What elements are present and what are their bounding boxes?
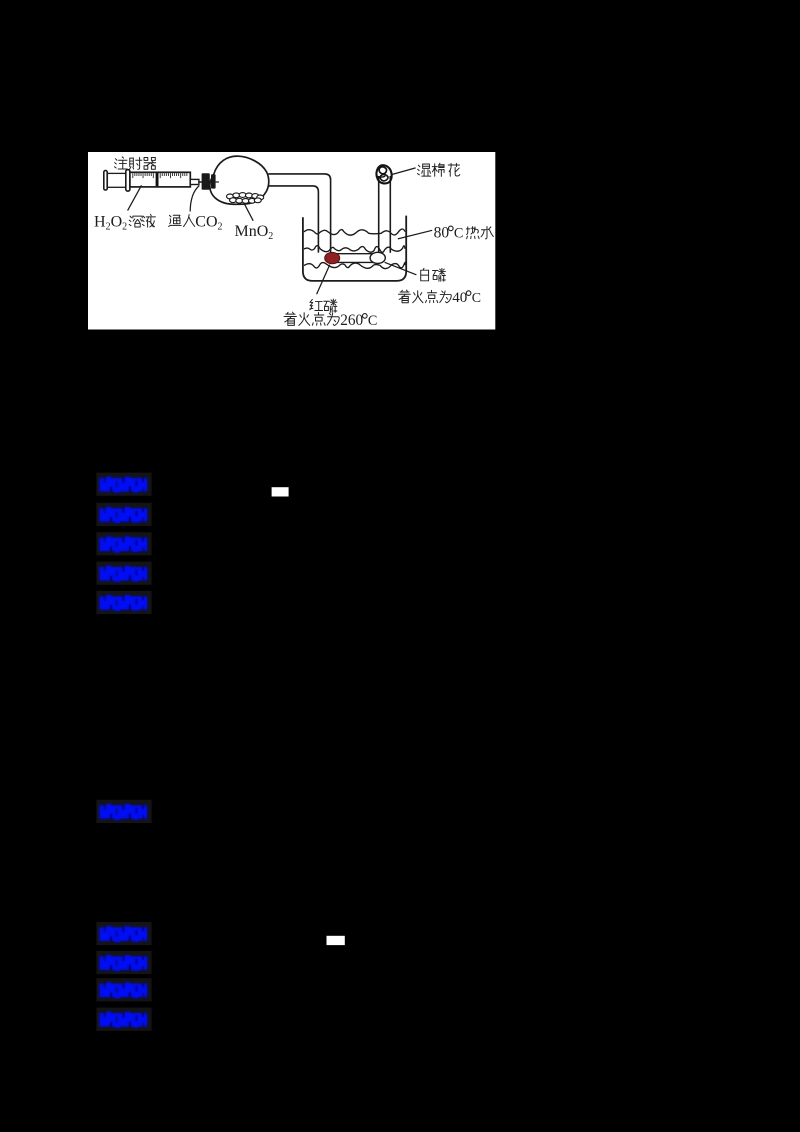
svg-text:C: C bbox=[454, 226, 463, 242]
svg-text:80: 80 bbox=[434, 225, 450, 242]
svg-text:C: C bbox=[368, 313, 377, 329]
svg-text:260: 260 bbox=[340, 312, 363, 329]
svg-text:40: 40 bbox=[452, 290, 467, 306]
svg-text:C: C bbox=[472, 291, 481, 306]
svg-text:MnO2: MnO2 bbox=[235, 223, 274, 242]
